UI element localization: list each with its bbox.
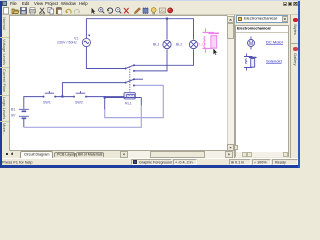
svg-text:M: M bbox=[249, 41, 254, 47]
